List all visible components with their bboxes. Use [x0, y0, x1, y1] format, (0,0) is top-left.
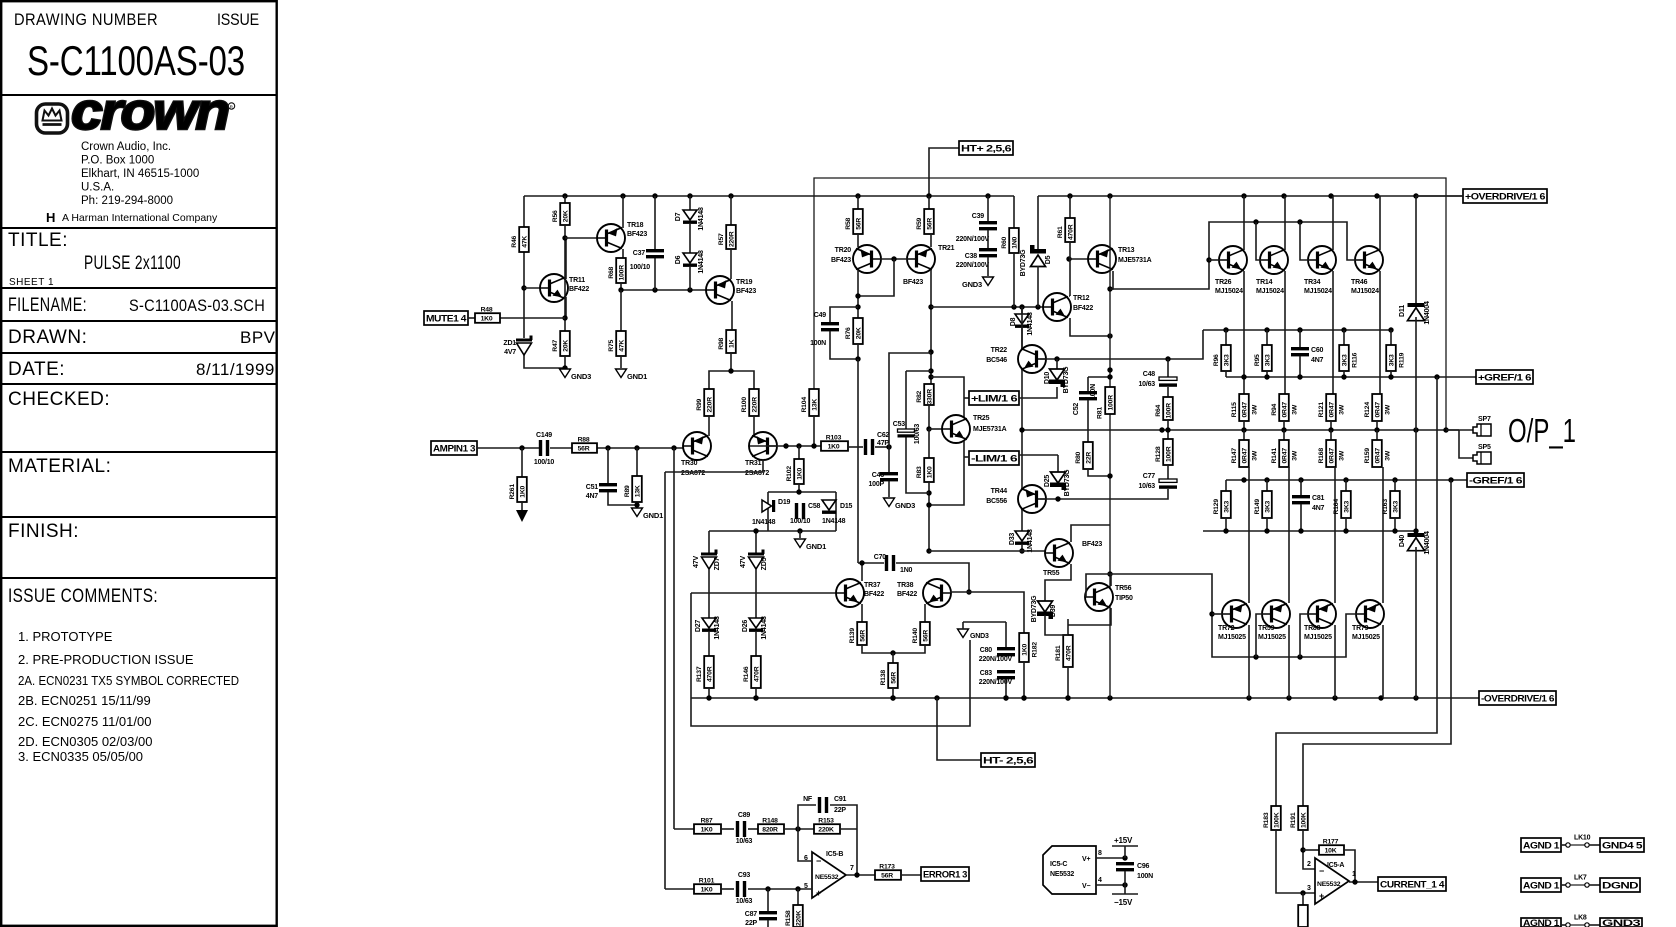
wire +LIM to D10	[1019, 387, 1057, 398]
svg-text:100P: 100P	[868, 481, 884, 488]
svg-text:HT- 2,5,6: HT- 2,5,6	[983, 755, 1033, 765]
capacitor C77	[1159, 479, 1177, 482]
svg-text:TR21: TR21	[938, 245, 955, 252]
svg-text:1N4148: 1N4148	[1027, 312, 1034, 336]
svg-text:LK10: LK10	[1574, 835, 1591, 842]
resistor R58	[857, 196, 859, 209]
net +OVERDRIVE/1 6	[1463, 189, 1547, 203]
svg-text:CURRENT_1 4: CURRENT_1 4	[1380, 879, 1445, 889]
svg-text:TR56: TR56	[1115, 585, 1132, 592]
wire R191 to R177 node	[1303, 830, 1315, 869]
wire TR25 collector to y377 node	[931, 377, 964, 417]
diode D7	[689, 196, 691, 210]
svg-text:TR34: TR34	[1304, 279, 1321, 286]
svg-text:C49: C49	[814, 312, 827, 319]
ground GND3 left	[560, 369, 571, 378]
svg-text:MUTE1 4: MUTE1 4	[426, 313, 467, 323]
svg-text:O/P_1: O/P_1	[1508, 412, 1576, 449]
svg-text:220N/100V: 220N/100V	[956, 236, 990, 243]
wire C52 top	[1087, 377, 1089, 391]
svg-text:R139: R139	[849, 628, 856, 644]
svg-text:1K0: 1K0	[1022, 643, 1029, 655]
capacitor C49 / resistor R76 branch	[830, 307, 858, 322]
wire TR55 emitter to D39	[1045, 564, 1071, 601]
svg-text:1N4004: 1N4004	[1424, 301, 1431, 325]
wire driver base row y593	[691, 592, 837, 594]
svg-text:470R: 470R	[1066, 645, 1073, 661]
svg-text:3W: 3W	[1384, 450, 1391, 461]
svg-text:3W: 3W	[1338, 404, 1345, 415]
svg-text:D19: D19	[778, 499, 791, 506]
wire -GREF row y480	[1226, 479, 1467, 481]
wire R99 R100 to diff pair	[708, 416, 710, 436]
wire C46 branch	[889, 353, 931, 472]
transistor TR37	[836, 579, 864, 607]
wire -LIM to D25	[1019, 454, 1058, 456]
svg-text:BPV: BPV	[240, 328, 276, 347]
svg-text:R141: R141	[1271, 448, 1278, 464]
wire TR37 collector stub	[861, 563, 863, 581]
svg-text:ZD1: ZD1	[503, 340, 516, 347]
svg-text:100N: 100N	[810, 340, 826, 347]
transistor TR21	[907, 245, 935, 273]
resistor R64	[1163, 397, 1173, 420]
svg-text:R138: R138	[880, 670, 887, 686]
svg-text:+LIM/1 6: +LIM/1 6	[971, 393, 1017, 403]
svg-text:C38: C38	[965, 253, 978, 260]
svg-text:R48: R48	[481, 307, 493, 314]
resistor R75	[616, 331, 626, 356]
svg-text:3W: 3W	[1384, 404, 1391, 415]
svg-text:2B. ECN0251 15/11/99: 2B. ECN0251 15/11/99	[18, 693, 151, 708]
transistor TR59	[1262, 600, 1290, 628]
svg-text:AMPIN1 3: AMPIN1 3	[433, 443, 475, 453]
ground arrow below R261	[516, 510, 528, 522]
svg-text:+OVERDRIVE/1 6: +OVERDRIVE/1 6	[1465, 191, 1545, 201]
svg-text:C46: C46	[872, 472, 885, 479]
svg-text:R147: R147	[1231, 448, 1238, 464]
svg-text:AGND 1: AGND 1	[1523, 918, 1559, 927]
transistor TR19	[706, 276, 734, 304]
svg-text:220K: 220K	[818, 827, 834, 834]
svg-text:C149: C149	[536, 432, 552, 439]
svg-text:D7: D7	[675, 212, 682, 221]
diode D40	[1415, 430, 1417, 533]
resistor R100	[749, 389, 759, 416]
svg-text:C81: C81	[1312, 495, 1325, 502]
main vertical rail x1110	[1109, 196, 1111, 387]
resistor R182	[1019, 633, 1029, 662]
wire C77 to TR44 base row y499	[1040, 489, 1168, 499]
svg-text:0R47: 0R47	[1329, 402, 1336, 418]
capacitor C53	[905, 371, 907, 429]
resistor R147	[1243, 430, 1245, 440]
svg-text:1N4148: 1N4148	[752, 519, 776, 526]
svg-text:56R: 56R	[923, 630, 930, 642]
svg-text:56R: 56R	[881, 873, 893, 880]
wire TR22 base row y359 to 3K3 row	[1040, 330, 1203, 359]
svg-text:R81: R81	[1097, 407, 1104, 419]
diode D27	[702, 618, 716, 628]
svg-text:1K0: 1K0	[701, 827, 713, 834]
svg-text:HT+ 2,5,6: HT+ 2,5,6	[961, 143, 1011, 153]
svg-text:BF423: BF423	[736, 288, 756, 295]
svg-text:D15: D15	[840, 503, 853, 510]
svg-text:C96: C96	[1137, 863, 1150, 870]
svg-text:2: 2	[1307, 861, 1311, 868]
svg-text:3W: 3W	[1338, 450, 1345, 461]
capacitor C46	[880, 472, 898, 475]
svg-text:4V7: 4V7	[504, 349, 516, 356]
svg-text:56R: 56R	[860, 630, 867, 642]
svg-text:C62: C62	[877, 432, 890, 439]
svg-text:1K: 1K	[729, 339, 736, 348]
transistor TR18	[565, 237, 598, 239]
resistor R148	[758, 824, 784, 834]
diode D15	[822, 500, 836, 510]
svg-text:GND3: GND3	[895, 501, 915, 510]
svg-text:PULSE 2x1100: PULSE 2x1100	[84, 253, 181, 274]
wire -LIM to TR25 emitter line	[964, 456, 969, 458]
svg-text:470R: 470R	[1068, 224, 1075, 240]
svg-text:3K3: 3K3	[1224, 500, 1231, 512]
resistor R164	[1345, 480, 1347, 491]
resistor R138	[892, 653, 894, 663]
wire TR55 base row y551	[929, 550, 1048, 552]
svg-text:C48: C48	[1143, 371, 1156, 378]
transistor TR44	[1018, 485, 1046, 513]
wire feedback loop left	[691, 593, 970, 726]
net AGND row 1	[1521, 838, 1561, 852]
svg-text:+: +	[816, 888, 821, 898]
svg-text:NE5532: NE5532	[1050, 871, 1074, 878]
wire emitter verticals bottom row	[1248, 467, 1250, 603]
diode D5 BYD73G	[1037, 196, 1039, 249]
power -15V	[1124, 885, 1126, 894]
svg-text:R177: R177	[1323, 839, 1339, 846]
wire D7-D6	[689, 224, 691, 253]
svg-text:GND1: GND1	[643, 511, 663, 520]
svg-text:D39: D39	[1050, 605, 1057, 618]
svg-text:MJ15024: MJ15024	[1351, 288, 1379, 295]
ground GND3 under C38	[983, 277, 994, 286]
svg-text:4N7: 4N7	[1311, 357, 1324, 364]
svg-text:R116: R116	[1351, 352, 1358, 367]
svg-text:D40: D40	[1399, 535, 1406, 548]
transistor TR14	[1260, 246, 1288, 274]
svg-text:−: −	[1319, 866, 1324, 876]
node TR11 base	[521, 285, 526, 290]
transistor TR46	[1355, 246, 1383, 274]
resistor R173	[875, 870, 901, 880]
diode D10 BYD73G	[1056, 359, 1058, 369]
net MUTE1 4	[424, 311, 468, 325]
svg-text:R149: R149	[1254, 499, 1261, 515]
resistor R191	[1298, 806, 1308, 830]
svg-text:56R: 56R	[891, 672, 898, 684]
ground GND1 under R75	[620, 290, 622, 331]
svg-text:C52: C52	[1073, 403, 1080, 416]
node TR18 base junction	[562, 235, 567, 240]
svg-text:BF422: BF422	[569, 286, 589, 293]
svg-text:BYD73G: BYD73G	[1020, 249, 1027, 277]
svg-text:3: 3	[1307, 885, 1311, 892]
svg-text:TR11: TR11	[569, 277, 585, 284]
svg-text:13K: 13K	[635, 485, 642, 497]
wire bus y178	[814, 178, 1446, 430]
svg-text:100/10: 100/10	[790, 518, 811, 525]
capacitor C58	[795, 503, 798, 519]
resistor R141	[1283, 430, 1285, 440]
resistor R95	[1266, 330, 1268, 345]
svg-text:R102: R102	[786, 466, 793, 482]
wire TR21 collector column x931	[930, 270, 932, 384]
svg-text:R183: R183	[1263, 812, 1270, 828]
svg-text:R181: R181	[1055, 645, 1062, 661]
resistor R146	[751, 656, 761, 688]
diode D26	[749, 618, 763, 628]
op-amp IC5-B	[812, 852, 846, 898]
svg-text:R146: R146	[743, 666, 750, 682]
wire TR18 emitter to R68	[622, 249, 624, 258]
connector SP5	[1473, 452, 1491, 464]
capacitor C60	[1299, 330, 1301, 347]
svg-text:R57: R57	[718, 233, 725, 245]
svg-text:3. ECN0335 05/05/00: 3. ECN0335 05/05/00	[18, 749, 143, 764]
svg-text:22R: 22R	[1086, 452, 1093, 464]
svg-text:D26: D26	[742, 620, 749, 633]
svg-text:R182: R182	[1031, 642, 1038, 658]
resistor R124	[1372, 394, 1382, 421]
wire mute	[468, 317, 475, 319]
svg-text:D8: D8	[1010, 317, 1017, 326]
svg-text:SHEET 1: SHEET 1	[9, 277, 54, 288]
svg-text:3W: 3W	[1251, 450, 1258, 461]
svg-text:TR14: TR14	[1256, 279, 1273, 286]
svg-text:2C. ECN0275 11/01/00: 2C. ECN0275 11/01/00	[18, 714, 151, 729]
net AMPIN1 3	[431, 441, 477, 455]
node dots on top bus	[562, 193, 567, 198]
svg-text:D6: D6	[675, 255, 682, 264]
net DGND	[1600, 878, 1640, 892]
svg-text:R98: R98	[718, 337, 725, 349]
svg-text:20K: 20K	[563, 340, 570, 352]
svg-text:+GREF/1 6: +GREF/1 6	[1478, 372, 1531, 382]
resistor R68	[616, 258, 626, 283]
resistor R83	[928, 429, 930, 458]
svg-text:R68: R68	[608, 266, 615, 278]
svg-text:R75: R75	[608, 339, 615, 351]
net -LIM/1 6	[969, 451, 1019, 465]
svg-text:100R: 100R	[1166, 403, 1173, 419]
svg-text:1K0: 1K0	[927, 466, 934, 478]
svg-text:100K: 100K	[1274, 812, 1281, 828]
svg-text:3W: 3W	[1251, 404, 1258, 415]
wire emitter join to R138	[862, 645, 925, 653]
svg-text:GND3: GND3	[962, 280, 982, 289]
wire link C87 R158 bottom	[767, 920, 769, 927]
net AGND row 2	[1521, 878, 1561, 892]
svg-text:0R47: 0R47	[1282, 448, 1289, 464]
resistor R158	[797, 889, 799, 905]
svg-text:TR19: TR19	[736, 279, 753, 286]
wire -rail bottom y698	[691, 697, 1481, 699]
wire zener column B	[755, 531, 757, 554]
svg-text:R115: R115	[1231, 402, 1238, 417]
svg-text:1N4004: 1N4004	[1424, 531, 1431, 555]
svg-text:-OVERDRIVE/1 6: -OVERDRIVE/1 6	[1481, 693, 1554, 703]
wire -GREF column down to R191	[1303, 480, 1451, 806]
svg-text:R124: R124	[1364, 402, 1371, 418]
resistor R121	[1326, 394, 1336, 421]
capacitor C48	[1167, 359, 1169, 377]
wire +rail top bus y196	[524, 195, 1014, 197]
wire R177 feedback	[1344, 850, 1355, 882]
svg-text:R60: R60	[1001, 236, 1008, 248]
svg-text:C93: C93	[738, 872, 751, 879]
wire x858 column down to C70 row	[857, 359, 859, 563]
resistor R102	[798, 446, 800, 459]
wire IC5-C pin8	[1096, 857, 1125, 859]
svg-text:C51: C51	[586, 484, 599, 491]
title block frame	[1, 1, 277, 926]
svg-text:0R47: 0R47	[1242, 448, 1249, 464]
wire TR13 base from R61 node	[1069, 258, 1089, 260]
resistor R103	[821, 441, 848, 451]
resistor R140	[924, 604, 926, 622]
transistor TR30 input pair	[683, 432, 711, 460]
svg-text:820R: 820R	[762, 827, 778, 834]
resistor R56	[564, 196, 566, 203]
capacitor C38	[987, 230, 989, 248]
svg-text:R61: R61	[1057, 226, 1064, 238]
svg-text:FINISH:: FINISH:	[8, 521, 79, 542]
svg-text:R94: R94	[1271, 403, 1278, 415]
svg-text:DGND: DGND	[1602, 880, 1639, 890]
capacitor C80	[1005, 622, 1007, 647]
svg-text:S-C1100AS-03.SCH: S-C1100AS-03.SCH	[129, 296, 265, 315]
transistor TR88	[1308, 600, 1336, 628]
wire y307 to TR12 base	[931, 306, 1044, 308]
svg-text:U.S.A.: U.S.A.	[81, 182, 114, 194]
svg-text:GND3: GND3	[970, 633, 989, 640]
svg-text:R173: R173	[879, 864, 895, 871]
svg-text:1K0: 1K0	[481, 316, 493, 323]
resistor R159	[1376, 430, 1378, 440]
svg-text:R163: R163	[1382, 499, 1389, 515]
svg-text:C77: C77	[1143, 473, 1156, 480]
resistor R47	[560, 331, 570, 356]
resistor R82	[924, 384, 934, 405]
resistor R61	[1069, 196, 1071, 218]
svg-text:3K3: 3K3	[1389, 354, 1396, 366]
resistor R98	[726, 330, 736, 353]
svg-text:crown: crown	[71, 83, 228, 141]
svg-text:1N4148: 1N4148	[1027, 529, 1034, 553]
zener ZD5	[748, 553, 764, 556]
svg-text:R261: R261	[509, 484, 516, 500]
diode D25	[1057, 455, 1059, 472]
svg-text:3K3: 3K3	[1224, 354, 1231, 366]
svg-text:56R: 56R	[927, 218, 934, 230]
svg-text:BF422: BF422	[897, 591, 917, 598]
svg-text:MJ15024: MJ15024	[1215, 288, 1243, 295]
svg-text:1. PROTOTYPE: 1. PROTOTYPE	[18, 629, 113, 644]
svg-text:MJE5731A: MJE5731A	[973, 426, 1007, 433]
svg-text:220R: 220R	[729, 231, 736, 247]
svg-text:C53: C53	[893, 421, 906, 428]
wire TR38 base to R182	[950, 591, 969, 593]
svg-text:BF422: BF422	[1073, 305, 1093, 312]
wire +GREF column down to R183	[1276, 377, 1437, 806]
svg-text:P.O. Box 1000: P.O. Box 1000	[81, 155, 154, 167]
wire collector verticals top row	[1243, 196, 1245, 250]
resistor R48	[475, 313, 500, 323]
svg-text:13K: 13K	[812, 399, 819, 411]
capacitor C37	[654, 196, 656, 249]
svg-text:2. PRE-PRODUCTION ISSUE: 2. PRE-PRODUCTION ISSUE	[18, 652, 194, 667]
wire 3K3 bottom row y531	[1203, 530, 1416, 532]
svg-text:S-C1100AS-03: S-C1100AS-03	[27, 37, 245, 84]
svg-text:R159: R159	[1364, 448, 1371, 464]
svg-text:TR38: TR38	[897, 582, 914, 589]
zener ZD7	[701, 553, 717, 556]
svg-text:TR55: TR55	[1043, 570, 1060, 577]
svg-text:100N: 100N	[1090, 384, 1097, 400]
capacitor C149	[539, 440, 542, 456]
svg-text:R89: R89	[624, 485, 631, 497]
transistor TR34	[1308, 246, 1336, 274]
svg-text:2SA872: 2SA872	[745, 470, 769, 477]
svg-text:D33: D33	[1009, 533, 1016, 546]
ground GND3 output cell	[958, 629, 969, 638]
svg-text:R168: R168	[1318, 448, 1325, 464]
svg-text:4: 4	[1098, 877, 1102, 884]
svg-text:NE5532: NE5532	[1317, 881, 1341, 888]
svg-text:1: 1	[1352, 871, 1356, 878]
svg-text:1K0: 1K0	[520, 485, 527, 497]
resistor R87	[674, 828, 694, 830]
svg-text:R95: R95	[1254, 354, 1261, 366]
svg-text:CHECKED:: CHECKED:	[8, 389, 110, 410]
svg-text:C91: C91	[834, 796, 847, 803]
net ERROR1 3	[921, 867, 969, 881]
svg-text:Elkhart, IN 46515-1000: Elkhart, IN 46515-1000	[81, 168, 199, 180]
svg-text:−15V: −15V	[1114, 898, 1133, 907]
svg-text:47V: 47V	[693, 556, 700, 568]
svg-text:3K3: 3K3	[1344, 500, 1351, 512]
resistor R153	[814, 824, 840, 834]
svg-text:Ph: 219-294-8000: Ph: 219-294-8000	[81, 195, 173, 207]
svg-text:TR46: TR46	[1351, 279, 1368, 286]
resistor R101	[694, 884, 721, 894]
svg-text:0R47: 0R47	[1375, 402, 1382, 418]
svg-text:0R47: 0R47	[1375, 448, 1382, 464]
svg-text:BYD73G: BYD73G	[1063, 366, 1070, 394]
resistor R149	[1266, 480, 1268, 491]
wire base row y290	[621, 289, 707, 291]
svg-text:3K3: 3K3	[1342, 354, 1349, 366]
svg-text:TR22: TR22	[991, 347, 1008, 354]
svg-text:R158: R158	[785, 910, 792, 926]
transistor TR12	[1043, 293, 1071, 321]
svg-text:C80: C80	[980, 647, 993, 654]
svg-text:R129: R129	[1213, 499, 1220, 515]
svg-text:R64: R64	[1155, 404, 1162, 416]
transistor TR22	[1018, 345, 1046, 373]
resistor R137	[704, 656, 714, 688]
svg-text:GND3: GND3	[571, 372, 591, 381]
